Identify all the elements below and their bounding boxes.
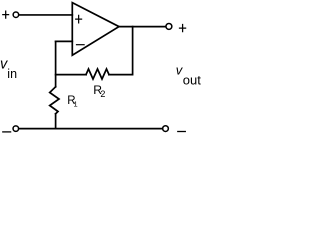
op-amp U1 non-inverting pin label + (76, 15, 82, 23)
ground terminal TP4 (-) (163, 126, 169, 132)
net label v_in (0, 57, 17, 81)
op-amp U1 (72, 3, 119, 56)
ground terminal TP3 (-) (13, 126, 18, 132)
svg-text:in: in (7, 67, 17, 81)
net label v_out (176, 63, 201, 88)
node A: R1/R2 junction branch wire (56, 74, 86, 76)
op-amp U1 inverting pin label - (77, 44, 85, 46)
polarity label + (top right) (180, 25, 186, 32)
polarity label - (bottom left) (3, 131, 11, 133)
wire: R1 to bottom rail (55, 114, 57, 129)
wire: R2 to feedback tap (109, 27, 133, 75)
output terminal TP2 (+) (166, 23, 172, 29)
svg-text:1: 1 (74, 100, 78, 109)
value label R2 (93, 83, 105, 99)
resistor R2 (86, 69, 109, 79)
wire: op-amp output (119, 26, 166, 28)
value label R1 (67, 95, 77, 109)
svg-text:2: 2 (100, 89, 105, 99)
polarity label + (top left) (3, 11, 9, 18)
input terminal TP1 (+) (13, 12, 19, 18)
resistor R1 (50, 87, 59, 114)
wire: non-inverting input (19, 14, 72, 16)
polarity label - (bottom right) (178, 131, 186, 133)
wire: inverting input horizontal (56, 40, 73, 42)
wire: inverting node vertical (55, 41, 57, 86)
svg-text:out: out (183, 72, 201, 87)
wire: bottom rail (19, 128, 163, 130)
